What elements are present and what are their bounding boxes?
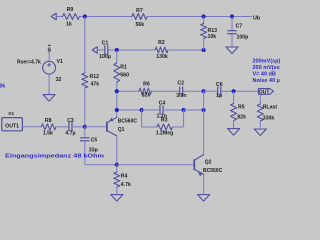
wire junction to Q1 base: [85, 126, 107, 128]
svg-text:3.9n: 3.9n: [176, 93, 186, 99]
wire R1 to line A and Q1 emitter: [116, 82, 118, 117]
transistor Q1 base bar: [106, 122, 108, 132]
wire line B left: [117, 109, 142, 111]
wire C2 to node: [183, 90, 204, 92]
svg-text:200mV(sp): 200mV(sp): [253, 58, 281, 64]
wire top rail down to R12: [84, 17, 86, 74]
svg-text:C7: C7: [236, 23, 243, 29]
capacitor C4: [159, 105, 161, 115]
wire R2 to node: [168, 49, 204, 51]
svg-text:82k: 82k: [237, 115, 246, 121]
wire R6 to C2: [152, 90, 180, 92]
svg-text:OUT1: OUT1: [5, 123, 19, 129]
svg-text:100µ: 100µ: [99, 54, 111, 60]
svg-text:82k: 82k: [142, 92, 151, 98]
wire flag to C1: [97, 49, 104, 51]
wire C3 to junction: [72, 126, 85, 128]
svg-text:10k: 10k: [208, 34, 217, 40]
junction line B / collector vertical: [202, 108, 206, 112]
resistor R3: [157, 124, 173, 130]
svg-text:560: 560: [120, 73, 129, 79]
svg-text:1k: 1k: [66, 22, 72, 28]
ground under R4: [111, 194, 123, 196]
svg-text:S: S: [47, 48, 51, 54]
junction line B / emitter vertical: [115, 108, 119, 112]
capacitor C1: [104, 45, 106, 55]
transistor Q1 emitter with arrow: [107, 117, 117, 122]
svg-text:R7: R7: [136, 8, 143, 14]
resistor R5: [231, 104, 237, 121]
junction line A / R5: [232, 89, 236, 93]
svg-text:R4: R4: [121, 174, 128, 180]
svg-text:0k: 0k: [0, 83, 5, 89]
junction line A / collector vertical: [202, 89, 206, 93]
svg-text:32: 32: [56, 77, 62, 83]
resistor R4: [114, 172, 120, 187]
wire base node down to C5: [84, 127, 86, 138]
wire to C4: [142, 109, 160, 111]
svg-text:C3: C3: [67, 118, 74, 124]
svg-text:Q1: Q1: [118, 127, 125, 133]
port OUT flag: [258, 89, 273, 95]
svg-text:RLast: RLast: [263, 105, 278, 111]
junction line B / R3 loop right: [182, 108, 186, 112]
wire R3 loop right side: [173, 126, 184, 128]
capacitor C5: [80, 137, 90, 139]
resistor R2: [155, 47, 168, 53]
wire Q2 collector up to line A: [203, 91, 205, 154]
ground under C7: [226, 46, 238, 48]
wire R12 down to input line: [84, 88, 86, 127]
ground under RLast: [254, 128, 266, 130]
ground under R5: [228, 128, 240, 130]
transistor Q2 collector: [194, 155, 203, 161]
svg-text:BC550C: BC550C: [203, 168, 223, 174]
capacitor C3: [68, 122, 70, 132]
capacitor C2: [179, 86, 181, 96]
wire V1 bottom to ground: [48, 74, 50, 95]
svg-text:56k: 56k: [135, 22, 144, 28]
transistor Q2 base bar: [193, 159, 195, 170]
port OUT1 box: [2, 118, 23, 131]
wire C7 to ground: [231, 34, 233, 47]
wire to Q2 base: [117, 164, 195, 166]
svg-text:C4: C4: [159, 100, 166, 106]
resistor R9: [63, 14, 80, 20]
wire C1-line to R1: [116, 50, 118, 63]
wire node to C6: [204, 90, 218, 92]
wire line B to collector vertical: [184, 109, 204, 111]
resistor RLast: [257, 104, 263, 121]
junction line A / R1 / Q1 emitter: [115, 89, 119, 93]
svg-text:330k: 330k: [263, 115, 275, 121]
svg-text:C1: C1: [102, 41, 109, 47]
plus sign V1: [47, 64, 51, 66]
resistor R8: [41, 124, 56, 130]
wire R4 to ground: [116, 187, 118, 195]
wire R3 loop left side: [141, 110, 143, 127]
wire line A to R5: [233, 91, 235, 103]
transistor Q1 collector: [107, 131, 117, 136]
svg-text:R3: R3: [161, 117, 168, 123]
wire R5 to ground: [233, 121, 235, 129]
svg-text:1µ: 1µ: [216, 93, 222, 99]
svg-text:BC560C: BC560C: [118, 119, 138, 125]
svg-text:1.2Meg: 1.2Meg: [156, 130, 174, 136]
svg-text:4.7k: 4.7k: [121, 182, 131, 188]
junction top rail / left vertical: [83, 14, 87, 18]
wire C6 to OUT: [221, 90, 259, 92]
port flag (left arrow) top-left: [51, 13, 56, 20]
svg-text:33p: 33p: [89, 147, 98, 153]
resistor R12: [82, 73, 88, 88]
svg-text:Rser=4.7k: Rser=4.7k: [17, 59, 41, 65]
wire Q2 emitter down: [203, 174, 205, 194]
svg-text:R12: R12: [90, 74, 100, 80]
resistor R6: [139, 88, 152, 94]
junction input line / R12 / C5: [83, 125, 87, 129]
wire top rail to C7: [231, 17, 233, 31]
svg-text:X1: X1: [8, 111, 14, 117]
capacitor C6: [217, 86, 219, 96]
ground under Q2: [198, 194, 210, 196]
svg-text:R1: R1: [120, 65, 127, 71]
junction line B / R3 loop left: [140, 108, 144, 112]
svg-text:V= 40 dB: V= 40 dB: [253, 72, 276, 78]
svg-text:47k: 47k: [91, 82, 100, 88]
svg-text:C2: C2: [177, 81, 184, 87]
resistor R1: [114, 63, 120, 82]
junction C1-line / R1: [115, 48, 119, 52]
svg-text:Q2: Q2: [205, 160, 212, 166]
wire C4 to loop right: [163, 109, 184, 111]
wire line A left segment: [117, 90, 139, 92]
svg-text:C5: C5: [91, 137, 98, 143]
wire Q1 collector down: [116, 136, 118, 165]
svg-text:V1: V1: [57, 59, 63, 65]
svg-text:C6: C6: [216, 82, 223, 88]
resistor R13: [201, 24, 207, 39]
wire R7 to Ub end: [147, 16, 252, 18]
svg-text:R8: R8: [45, 118, 52, 124]
wire V1 top with node S: [48, 49, 50, 61]
wire top rail to R13: [203, 17, 205, 24]
wire R13 to R2 node: [203, 39, 205, 51]
ground under V1: [43, 94, 55, 96]
wire port to R9: [56, 16, 62, 18]
svg-text:R6: R6: [143, 81, 150, 87]
svg-text:R2: R2: [158, 40, 165, 46]
junction bottom line / R4 / Q1 collector: [115, 163, 119, 167]
svg-text:200 mV(ss): 200 mV(ss): [253, 65, 281, 71]
port flag (left arrow) at C1: [92, 47, 97, 54]
svg-text:Eingangsimpedanz 48 kOhm: Eingangsimpedanz 48 kOhm: [5, 154, 104, 160]
wire node to R4: [116, 165, 118, 172]
transistor Q2 emitter with arrow: [194, 169, 203, 174]
svg-text:130k: 130k: [156, 54, 168, 60]
wire R9 to R7 with junction: [80, 16, 132, 18]
svg-text:R5: R5: [238, 105, 245, 111]
svg-text:Ub: Ub: [253, 15, 261, 21]
resistor R7: [132, 14, 147, 20]
wire RLast to ground: [259, 121, 261, 129]
svg-text:100p: 100p: [237, 35, 249, 41]
svg-text:1.5k: 1.5k: [43, 130, 53, 136]
junction top rail / R13: [202, 14, 206, 18]
svg-text:R9: R9: [67, 7, 74, 13]
wire OUT down to RLast: [259, 94, 261, 104]
wire OUT1 to R8: [22, 126, 41, 128]
capacitor C7: [227, 30, 237, 32]
junction top rail / C7: [230, 14, 234, 18]
wire C5 down and corner to R4 node: [84, 141, 86, 165]
wire C1 to R2: [108, 49, 155, 51]
voltage source V1 circle: [43, 61, 56, 74]
wire R8 to C3: [56, 126, 69, 128]
svg-text:Noise 40 µV: Noise 40 µV: [253, 78, 281, 84]
svg-text:4.7µ: 4.7µ: [65, 130, 75, 136]
junction R2 / R13 / collector net: [202, 48, 206, 52]
svg-text:R13: R13: [208, 28, 218, 34]
